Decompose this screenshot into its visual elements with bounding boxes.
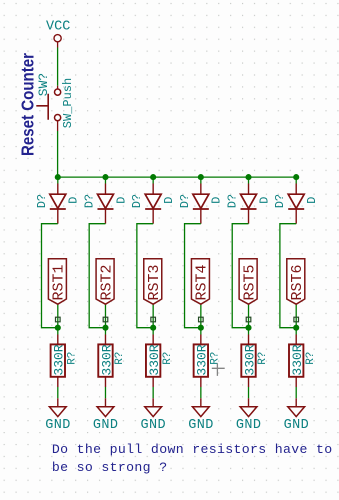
svg-text:R?: R? bbox=[257, 352, 269, 365]
svg-text:330R: 330R bbox=[290, 344, 305, 375]
svg-text:D?: D? bbox=[82, 194, 96, 208]
svg-text:D: D bbox=[257, 197, 271, 204]
svg-text:D?: D? bbox=[35, 194, 49, 208]
svg-text:D?: D? bbox=[226, 194, 240, 208]
svg-text:D: D bbox=[114, 197, 128, 204]
svg-text:330R: 330R bbox=[195, 344, 210, 375]
svg-text:R?: R? bbox=[305, 352, 317, 365]
svg-text:330R: 330R bbox=[147, 344, 162, 375]
svg-text:RST3: RST3 bbox=[146, 264, 163, 300]
svg-text:D: D bbox=[210, 197, 224, 204]
svg-text:R?: R? bbox=[66, 352, 78, 365]
svg-text:RST4: RST4 bbox=[194, 264, 211, 300]
svg-text:330R: 330R bbox=[242, 344, 257, 375]
svg-text:330R: 330R bbox=[52, 344, 67, 375]
svg-text:GND: GND bbox=[45, 418, 71, 433]
svg-text:RST2: RST2 bbox=[98, 264, 115, 300]
svg-text:GND: GND bbox=[236, 418, 262, 433]
svg-text:R?: R? bbox=[209, 352, 221, 365]
svg-text:GND: GND bbox=[284, 418, 310, 433]
svg-text:D?: D? bbox=[273, 194, 287, 208]
svg-text:D?: D? bbox=[130, 194, 144, 208]
svg-text:R?: R? bbox=[114, 352, 126, 365]
svg-text:GND: GND bbox=[141, 418, 167, 433]
svg-text:VCC: VCC bbox=[46, 19, 70, 34]
svg-text:R?: R? bbox=[162, 352, 174, 365]
svg-text:GND: GND bbox=[188, 418, 214, 433]
svg-text:D?: D? bbox=[178, 194, 192, 208]
svg-text:D: D bbox=[162, 197, 176, 204]
svg-text:D: D bbox=[67, 197, 81, 204]
svg-text:be so strong ?: be so strong ? bbox=[52, 460, 168, 475]
svg-text:RST5: RST5 bbox=[241, 264, 258, 300]
svg-text:330R: 330R bbox=[99, 344, 114, 375]
svg-text:Reset Counter: Reset Counter bbox=[18, 53, 38, 156]
svg-text:RST6: RST6 bbox=[289, 264, 306, 300]
svg-text:Do the pull down resistors hav: Do the pull down resistors have to bbox=[52, 442, 333, 457]
svg-text:SW?: SW? bbox=[36, 73, 51, 96]
svg-text:D: D bbox=[305, 197, 319, 204]
svg-text:RST1: RST1 bbox=[51, 264, 68, 300]
svg-text:GND: GND bbox=[93, 418, 119, 433]
svg-text:SW_Push: SW_Push bbox=[61, 78, 75, 128]
